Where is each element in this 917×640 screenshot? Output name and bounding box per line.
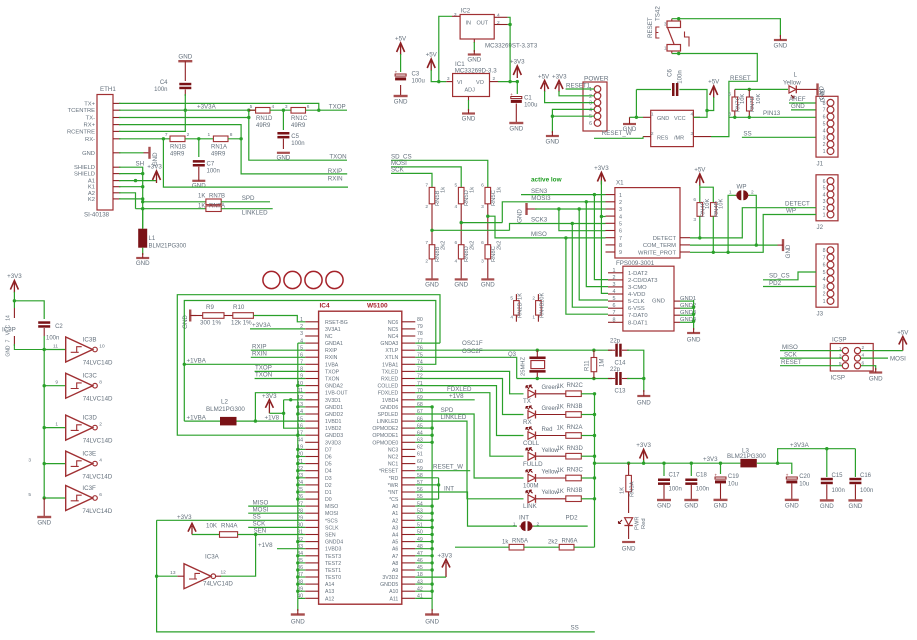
svg-text:GND: GND	[425, 281, 439, 288]
svg-text:NC3: NC3	[388, 447, 398, 453]
svg-text:GNDA2: GNDA2	[325, 384, 343, 390]
svg-text:SH: SH	[136, 161, 145, 168]
connector J3	[816, 244, 838, 307]
svg-text:4: 4	[455, 259, 458, 265]
svg-text:6: 6	[481, 240, 484, 246]
junction RN4D/WRITE_PROT	[712, 216, 714, 252]
led common vertical	[594, 394, 596, 547]
svg-text:+1V8: +1V8	[258, 542, 273, 549]
svg-text:GND: GND	[277, 155, 291, 162]
svg-text:C4: C4	[160, 80, 168, 86]
wire C13/C14 to GND	[643, 375, 645, 392]
svg-text:4: 4	[691, 112, 694, 118]
svg-text:6: 6	[619, 229, 622, 235]
svg-text:GND: GND	[637, 400, 651, 407]
svg-text:+5V: +5V	[426, 52, 438, 59]
svg-text:A9: A9	[392, 568, 398, 574]
svg-text:4: 4	[510, 315, 513, 321]
svg-text:5: 5	[823, 270, 826, 276]
svg-text:TX: TX	[523, 398, 531, 405]
svg-text:10u: 10u	[728, 482, 738, 488]
svg-text:2: 2	[613, 275, 616, 281]
svg-text:D7: D7	[325, 447, 332, 453]
svg-text:R10: R10	[233, 304, 245, 311]
svg-text:6: 6	[481, 183, 484, 189]
wire +5V to POWER pin3	[545, 91, 595, 103]
wire A1 to +3V3	[119, 180, 157, 182]
capacitor C19 10u	[719, 462, 722, 465]
svg-text:IC3A: IC3A	[205, 554, 220, 561]
svg-text:COLLED: COLLED	[378, 384, 399, 390]
svg-text:+3V3: +3V3	[703, 456, 718, 463]
svg-text:100n: 100n	[669, 487, 682, 493]
svg-text:J1: J1	[817, 161, 824, 168]
svg-text:3: 3	[481, 204, 484, 210]
svg-text:100n: 100n	[291, 141, 304, 147]
wire RXIP from RX+ junction	[241, 139, 347, 174]
svg-text:INT: INT	[519, 514, 529, 521]
wire 1VB-OUT riser to IC4 pin11	[255, 393, 305, 421]
svg-text:L1: L1	[149, 236, 156, 242]
svg-text:78: 78	[417, 331, 423, 337]
junction IC2-in/IC1-in	[437, 80, 440, 83]
svg-text:5: 5	[823, 186, 826, 192]
svg-text:RESET: RESET	[781, 359, 802, 366]
svg-text:100n: 100n	[154, 87, 167, 93]
svg-text:2: 2	[99, 421, 102, 427]
svg-text:GNDA3: GNDA3	[380, 341, 398, 347]
svg-text:62: 62	[417, 445, 423, 451]
ground below L1	[142, 248, 144, 255]
svg-text:SI-40138: SI-40138	[84, 212, 110, 219]
svg-text:COLL: COLL	[523, 440, 540, 447]
svg-text:GND: GND	[849, 503, 863, 510]
svg-text:TXON: TXON	[329, 154, 346, 161]
svg-text:+1V8: +1V8	[449, 393, 464, 400]
svg-text:IC3D: IC3D	[83, 414, 98, 421]
svg-text:1K: 1K	[557, 468, 564, 474]
svg-text:GND: GND	[178, 54, 192, 61]
svg-text:MISO: MISO	[531, 231, 547, 238]
svg-text:LINKLED: LINKLED	[441, 414, 467, 421]
wire ICSP pin6 to GND	[861, 366, 876, 370]
svg-text:RN1D: RN1D	[256, 116, 273, 122]
wire MISO branch to FPS pin7	[566, 238, 608, 314]
capacitor C1 100u	[516, 82, 518, 94]
svg-text:DETECT: DETECT	[653, 236, 677, 242]
svg-text:5: 5	[28, 492, 31, 498]
svg-text:4: 4	[455, 204, 458, 210]
ground rotated at COM_TERM	[782, 239, 784, 251]
svg-text:100n: 100n	[696, 487, 709, 493]
svg-text:GND: GND	[791, 103, 805, 110]
led 100M Yellow	[528, 474, 536, 482]
capacitor C18 100n	[690, 462, 693, 465]
svg-text:4: 4	[613, 289, 616, 295]
svg-text:GND: GND	[546, 138, 560, 145]
svg-text:GND: GND	[785, 244, 792, 258]
svg-text:+3V3: +3V3	[438, 553, 453, 560]
ground below C3	[400, 85, 402, 96]
svg-text:7: 7	[823, 108, 826, 114]
wire reset switch top to GND	[677, 17, 680, 20]
svg-text:8: 8	[613, 317, 616, 323]
svg-text:2: 2	[619, 200, 622, 206]
svg-text:7: 7	[425, 240, 428, 246]
svg-text:1K: 1K	[557, 446, 564, 452]
ic U2 supervisor GND/VCC RES/MR	[651, 110, 694, 146]
resistor RN2D 1K stub	[515, 294, 517, 301]
svg-text:IC3F: IC3F	[82, 485, 96, 492]
svg-text:GND: GND	[657, 503, 671, 510]
svg-text:FULLD: FULLD	[523, 461, 543, 468]
svg-text:RN3B: RN3B	[567, 488, 583, 494]
wire SS net via IC3A input	[157, 520, 595, 632]
main +3V3 rail	[595, 462, 741, 464]
svg-text:5: 5	[823, 122, 826, 128]
svg-text:GND: GND	[652, 299, 665, 305]
wire reset switch bottom to RESET net	[677, 52, 680, 55]
ground bus right of IC4	[431, 407, 433, 599]
resistor RN4C 10K	[697, 203, 703, 217]
svg-text:A6: A6	[392, 547, 398, 553]
wire WP pin2 to COM_TERM	[749, 195, 756, 245]
svg-text:6: 6	[307, 104, 310, 110]
svg-text:100M: 100M	[523, 483, 538, 490]
svg-text:3: 3	[285, 104, 288, 110]
svg-text:10K: 10K	[705, 199, 711, 209]
wire COLLED to COLL led	[415, 386, 523, 436]
wire TCENTRE +3V3A	[119, 109, 256, 111]
svg-text:6: 6	[589, 121, 592, 127]
led COLL Red	[528, 432, 536, 440]
svg-text:Red: Red	[641, 518, 647, 529]
wire +3V3A branch	[778, 449, 856, 464]
svg-text:7-DAT0: 7-DAT0	[628, 313, 648, 319]
svg-text:C5: C5	[291, 134, 299, 140]
svg-text:SEN3: SEN3	[531, 188, 548, 195]
wire +3V3 to pins 12/16	[284, 400, 306, 428]
svg-text:SCK: SCK	[391, 167, 405, 174]
svg-text:4: 4	[99, 457, 102, 463]
connector J1	[816, 96, 838, 157]
svg-text:A12: A12	[325, 596, 334, 602]
svg-text:9: 9	[619, 250, 622, 256]
svg-text:TXOP: TXOP	[325, 369, 340, 375]
svg-text:2: 2	[532, 296, 535, 302]
svg-text:49R9: 49R9	[256, 123, 271, 129]
svg-text:2: 2	[823, 292, 826, 298]
ground below C1	[515, 104, 517, 124]
svg-text:C16: C16	[860, 473, 872, 479]
svg-text:+: +	[786, 472, 789, 477]
svg-text:3: 3	[728, 112, 731, 118]
svg-text:6: 6	[693, 197, 696, 203]
svg-text:RN4B: RN4B	[540, 302, 546, 318]
ground stub IC2	[473, 39, 475, 43]
wire crystal bottom row	[517, 378, 612, 380]
svg-text:SS: SS	[743, 130, 751, 137]
svg-text:1K: 1K	[557, 489, 564, 495]
svg-text:GND: GND	[622, 546, 636, 553]
svg-text:A3: A3	[392, 525, 398, 531]
svg-text:3V3A1: 3V3A1	[325, 327, 341, 333]
svg-text:6: 6	[823, 179, 826, 185]
svg-text:2: 2	[425, 204, 428, 210]
svg-text:RN2A: RN2A	[567, 425, 583, 431]
svg-text:AREF: AREF	[789, 96, 806, 103]
svg-text:+1V8: +1V8	[265, 414, 280, 421]
svg-text:4: 4	[823, 192, 826, 198]
svg-text:NC6: NC6	[388, 320, 398, 326]
svg-text:A7: A7	[392, 554, 398, 560]
svg-text:9: 9	[55, 380, 58, 386]
svg-text:TX+: TX+	[84, 101, 95, 107]
svg-text:ICSP: ICSP	[832, 337, 846, 344]
ground below PWR led	[628, 526, 630, 540]
svg-text:2k2: 2k2	[470, 241, 476, 250]
svg-text:C3: C3	[412, 72, 420, 78]
svg-text:1: 1	[651, 112, 654, 118]
fiducial circles	[263, 271, 280, 288]
svg-text:SCK: SCK	[784, 352, 798, 359]
svg-text:3: 3	[300, 331, 303, 337]
ground below POWER	[551, 116, 553, 133]
svg-text:D1: D1	[325, 490, 332, 496]
wire PIN13 row	[729, 116, 816, 118]
svg-text:MOSI: MOSI	[890, 355, 906, 362]
svg-text:1: 1	[823, 299, 826, 305]
svg-text:SS: SS	[253, 514, 261, 521]
svg-text:GND: GND	[182, 315, 189, 329]
outer ground ring	[177, 295, 440, 436]
wire POWER pin4	[552, 109, 594, 116]
svg-text:6: 6	[823, 115, 826, 121]
svg-text:GND: GND	[454, 281, 468, 288]
svg-text:61: 61	[417, 452, 423, 458]
svg-text:NC: NC	[325, 334, 333, 340]
svg-text:OSC2F: OSC2F	[462, 348, 483, 355]
svg-text:RN6A: RN6A	[562, 538, 578, 544]
ground below C13/C14	[637, 395, 650, 397]
svg-text:3: 3	[481, 259, 484, 265]
svg-text:TEST1: TEST1	[325, 568, 341, 574]
wire GNDA3 row to ring	[415, 342, 440, 344]
svg-text:+5V: +5V	[897, 330, 909, 337]
svg-text:GND: GND	[684, 503, 698, 510]
svg-text:RN1C: RN1C	[291, 116, 308, 122]
svg-text:GND: GND	[394, 99, 408, 106]
svg-text:1VBD3: 1VBD3	[325, 547, 342, 553]
svg-text:LINKLED: LINKLED	[242, 210, 268, 217]
svg-text:5: 5	[510, 296, 513, 302]
svg-text:6: 6	[455, 240, 458, 246]
svg-text:74LVC14D: 74LVC14D	[82, 474, 112, 481]
svg-text:RXIP: RXIP	[328, 168, 342, 175]
svg-text:WRITE_PROT: WRITE_PROT	[638, 250, 676, 256]
resistor RN4D 10K	[711, 203, 717, 217]
wire RN7 top rail to LED L	[735, 88, 788, 90]
svg-text:RN3D: RN3D	[567, 446, 584, 452]
wire K2	[119, 198, 143, 200]
junction RN4C/DETECT	[699, 216, 701, 238]
capacitor C6 100n	[636, 89, 671, 91]
svg-text:GND: GND	[774, 42, 788, 49]
svg-text:GND: GND	[481, 281, 495, 288]
svg-text:8: 8	[99, 380, 102, 386]
resistor R9 300 1%	[190, 315, 196, 317]
svg-text:RN2C: RN2C	[567, 383, 584, 389]
svg-text:8: 8	[619, 243, 622, 249]
svg-text:4: 4	[823, 277, 826, 283]
svg-text:C14: C14	[615, 361, 627, 367]
svg-text:74LVC14D: 74LVC14D	[83, 396, 113, 403]
svg-text:+3V3: +3V3	[594, 165, 609, 172]
svg-text:RESET1: RESET1	[566, 82, 591, 89]
wire SPD	[221, 201, 270, 203]
svg-text:100n: 100n	[678, 70, 684, 83]
svg-text:+5V: +5V	[538, 74, 550, 81]
svg-text:RN1A: RN1A	[211, 145, 227, 151]
svg-text:VO: VO	[476, 80, 485, 86]
svg-text:TS42: TS42	[655, 6, 662, 21]
resistor network RN5B 1k / RN8B 2k2	[429, 187, 435, 203]
wire RN5A RN6A row	[455, 546, 509, 548]
resistor network RN5C 1k / RN8C 2k2	[485, 187, 491, 203]
svg-text:Red: Red	[542, 427, 553, 433]
svg-text:MOSI: MOSI	[253, 506, 269, 513]
svg-text:GND: GND	[82, 151, 95, 157]
led LINK Yellow	[528, 495, 536, 503]
svg-text:OUT: OUT	[477, 21, 489, 27]
svg-text:7: 7	[823, 255, 826, 261]
svg-text:2: 2	[823, 142, 826, 148]
svg-text:RSET-BG: RSET-BG	[325, 320, 348, 326]
resistor network RN5D 1k / RN8D 2k2	[458, 187, 464, 203]
svg-text:SS: SS	[571, 625, 579, 632]
svg-text:+5V: +5V	[708, 79, 720, 86]
svg-text:+3V3: +3V3	[636, 442, 651, 449]
svg-text:IC3P: IC3P	[2, 327, 16, 334]
svg-text:SD_CS: SD_CS	[769, 273, 790, 280]
wire TX-	[119, 117, 249, 119]
svg-text:SCLK: SCLK	[325, 525, 339, 531]
svg-text:*SCS: *SCS	[325, 518, 338, 524]
svg-text:TXON: TXON	[325, 377, 340, 383]
svg-text:GND: GND	[509, 126, 523, 133]
svg-text:IC3B: IC3B	[83, 336, 97, 343]
svg-text:MOSI3: MOSI3	[531, 195, 551, 202]
svg-text:1k: 1k	[441, 187, 447, 193]
capacitor C5 100n	[282, 110, 284, 130]
inverter IC3C 74LVC14D	[43, 384, 46, 387]
svg-text:3V3D2: 3V3D2	[382, 575, 398, 581]
svg-text:10: 10	[99, 343, 105, 349]
wire WRITE_PROT to J2 pin1	[690, 215, 816, 253]
svg-text:100n: 100n	[46, 336, 59, 342]
wire IC2 out / IC1 out to +3V3	[498, 81, 517, 83]
svg-text:D0: D0	[325, 497, 332, 503]
svg-text:R11: R11	[585, 360, 591, 371]
junction RN1C/TX+	[317, 109, 320, 112]
svg-text:RN7B: RN7B	[209, 193, 225, 199]
wire DETECT from X1	[690, 208, 816, 238]
wire LINKLED	[221, 208, 273, 210]
wire LINKLED to LINK led	[415, 421, 523, 499]
ic IC4 pins	[305, 321, 318, 323]
ground below ICSP	[869, 371, 882, 373]
ground below IC4 left	[297, 598, 299, 611]
svg-text:3: 3	[823, 199, 826, 205]
svg-text:1: 1	[55, 421, 58, 427]
svg-text:+3V3A: +3V3A	[252, 322, 272, 329]
svg-text:C17: C17	[669, 473, 681, 479]
svg-text:74LVC14D: 74LVC14D	[82, 508, 112, 515]
svg-text:TX-: TX-	[86, 116, 95, 122]
svg-text:Q3: Q3	[508, 352, 517, 358]
wires FPS GND1-GND4	[674, 300, 680, 302]
svg-text:7: 7	[165, 132, 168, 138]
svg-text:1: 1	[532, 315, 535, 321]
wire TXON from TX- junction	[247, 116, 250, 119]
svg-text:RXIN: RXIN	[252, 350, 267, 357]
ground below IC3 chain	[43, 498, 45, 517]
capacitor C7 100n	[198, 139, 200, 157]
svg-text:+3V3: +3V3	[510, 59, 525, 66]
input bus of IC3 gates	[43, 336, 45, 498]
svg-text:3: 3	[691, 131, 694, 137]
svg-text:49R9: 49R9	[170, 152, 185, 158]
wire RCENTRE	[119, 110, 185, 131]
svg-text:D5: D5	[325, 462, 332, 468]
svg-text:5: 5	[250, 104, 253, 110]
svg-text:*RD: *RD	[389, 476, 399, 482]
svg-text:A4: A4	[392, 533, 398, 539]
wire WP pin1 to WRITE_PROT	[728, 195, 735, 252]
svg-text:10u: 10u	[799, 482, 809, 488]
svg-text:NC5: NC5	[388, 327, 398, 333]
svg-text:RN3C: RN3C	[567, 468, 584, 474]
junction RX-/RN1B/RXIN	[162, 137, 165, 140]
svg-text:A11: A11	[389, 596, 398, 602]
svg-text:GNDD5: GNDD5	[380, 582, 398, 588]
svg-text:*CS: *CS	[389, 497, 399, 503]
svg-text:8: 8	[823, 101, 826, 107]
wire divider2 mid to MOSI3	[460, 221, 463, 224]
svg-text:1-DAT2: 1-DAT2	[628, 271, 648, 277]
svg-text:10K: 10K	[540, 293, 546, 303]
wire IC2 input from +5V node	[439, 16, 452, 81]
svg-text:L2: L2	[221, 399, 228, 406]
svg-text:A10: A10	[389, 589, 398, 595]
svg-text:RXIP: RXIP	[252, 343, 266, 350]
svg-text:GND: GND	[657, 116, 669, 122]
svg-text:5: 5	[455, 183, 458, 189]
svg-text:49R9: 49R9	[211, 152, 226, 158]
svg-text:+3V3A: +3V3A	[790, 442, 810, 449]
led RX Green	[528, 411, 536, 419]
svg-text:Yellow: Yellow	[783, 79, 801, 86]
wire +1V8 row to IC4 pin15	[237, 420, 306, 422]
svg-text:D4: D4	[325, 469, 332, 475]
svg-text:A8: A8	[392, 561, 398, 567]
led TX Green	[528, 390, 536, 398]
svg-text:GNDA1: GNDA1	[325, 341, 343, 347]
svg-text:C7: C7	[207, 162, 215, 168]
svg-text:C15: C15	[832, 473, 844, 479]
wire RX-	[119, 138, 170, 140]
svg-text:1: 1	[208, 132, 211, 138]
